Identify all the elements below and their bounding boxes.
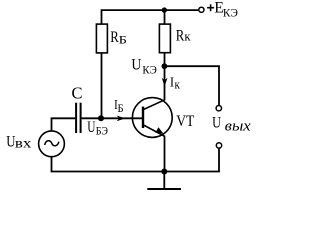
transistor VT emitter arrow: [155, 127, 163, 133]
svg-text:вых: вых: [225, 118, 251, 134]
svg-text:КЭ: КЭ: [223, 6, 238, 20]
wire emitter lead: [164, 136, 166, 171]
node base junction: [98, 115, 104, 121]
svg-text:VT: VT: [176, 113, 194, 130]
svg-text:R: R: [110, 29, 119, 46]
wire RК bottom lead: [164, 53, 166, 66]
transistor VT emitter stroke: [144, 125, 166, 137]
wire source to capacitor: [52, 118, 76, 131]
svg-text:U: U: [212, 114, 221, 131]
source Uвх circle: [39, 131, 65, 157]
capacitor C right plate: [80, 103, 82, 133]
wire collector lead: [164, 66, 166, 100]
wire RБ bottom lead: [101, 53, 103, 118]
svg-text:к: к: [184, 28, 191, 43]
wire top rail with RБ top lead: [102, 10, 199, 24]
transistor VT base bar: [142, 107, 144, 128]
svg-text:U: U: [87, 119, 96, 136]
wire bottom rail: [52, 149, 220, 172]
node top junction: [162, 7, 167, 12]
svg-text:U: U: [131, 57, 141, 74]
transistor VT circle: [132, 98, 172, 138]
svg-text:вх: вх: [15, 136, 32, 151]
svg-text:C: C: [72, 84, 83, 103]
ground: [163, 172, 165, 190]
wire RК top lead: [164, 10, 166, 24]
svg-text:БЭ: БЭ: [96, 124, 108, 138]
svg-text:КЭ: КЭ: [142, 63, 156, 77]
node bottom junction: [161, 169, 167, 175]
arrow Iк: [162, 78, 168, 87]
terminal +EКЭ: [199, 7, 204, 12]
svg-text:Б: Б: [119, 33, 127, 47]
node collector junction: [162, 63, 168, 69]
svg-text:Б: Б: [118, 101, 124, 115]
transistor VT collector stroke: [144, 100, 166, 110]
wire base lead: [82, 117, 143, 119]
source Uвх sine: [45, 141, 59, 146]
resistor RК: [159, 24, 170, 53]
wire node to top output terminal: [164, 66, 219, 105]
svg-text:R: R: [176, 27, 185, 44]
svg-text:к: к: [175, 77, 181, 92]
terminal output top: [216, 106, 221, 111]
capacitor C left plate: [75, 103, 77, 133]
terminal output bottom: [216, 143, 221, 148]
arrow IБ: [117, 116, 126, 122]
resistor RБ: [96, 24, 107, 53]
